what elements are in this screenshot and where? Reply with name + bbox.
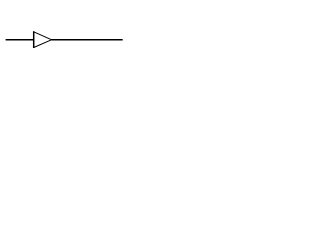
wire	[51, 39, 122, 41]
wire	[6, 39, 34, 41]
buffer U1	[34, 31, 52, 48]
